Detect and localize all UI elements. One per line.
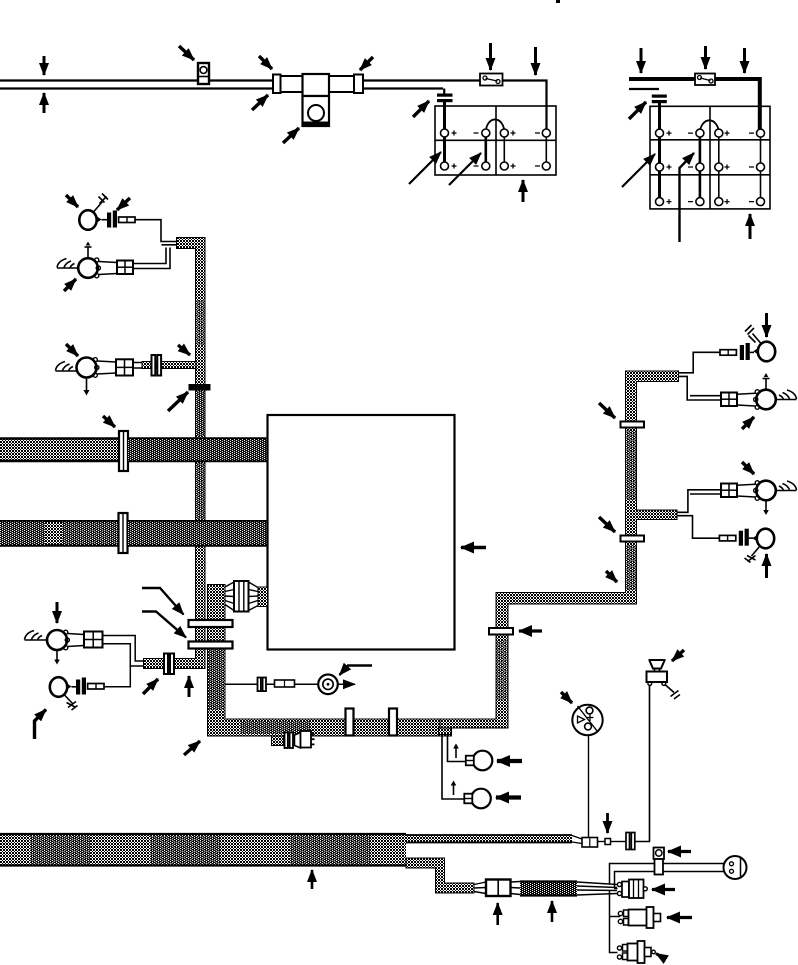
arrow down at battery feed wire bbox=[534, 47, 537, 75]
arrow thick at lamp L6 bbox=[497, 759, 522, 763]
arrow at T-junction left nut bbox=[259, 56, 272, 69]
battery terminal clamp box2 bbox=[652, 95, 667, 202]
battery box 2 cell links bbox=[700, 120, 761, 201]
arrow bent at lamp L5 bbox=[35, 710, 47, 740]
battery box 2 terminals bbox=[656, 129, 765, 206]
arrow at connector L1 bbox=[117, 198, 130, 210]
arrow at harness clamp black bbox=[168, 392, 188, 411]
texture patches on bands bbox=[0, 439, 268, 545]
arrow down at lamp L4 bbox=[56, 602, 59, 623]
circuit breaker on battery feed bbox=[480, 74, 503, 86]
harness clamp 2 bbox=[189, 642, 233, 649]
arrow up at box1 bottom bbox=[522, 180, 525, 202]
arrow at lamp L1 bbox=[66, 195, 78, 207]
arrow up at lamp D bbox=[765, 554, 768, 578]
arrow up at cable bottom bbox=[43, 93, 46, 113]
shielded lead L3 bbox=[142, 362, 196, 369]
connector block L4 bbox=[84, 632, 103, 648]
clamp right harness 1 bbox=[621, 422, 645, 428]
arrow down box2 left bbox=[640, 48, 643, 73]
wires to dome lamps bbox=[442, 735, 466, 800]
wire alarm out with arrowhead bbox=[338, 683, 355, 685]
arrow up at stub junction bbox=[188, 676, 191, 697]
wire switch lead connector bbox=[572, 686, 650, 850]
connector on band B2 bbox=[119, 513, 128, 553]
arrow long at box2 cell link 1 bbox=[622, 154, 655, 187]
wire horn down bbox=[649, 686, 651, 842]
texture patches on hull band bbox=[30, 836, 370, 864]
arrow at lamp C bbox=[742, 462, 754, 474]
tick mark top edge bbox=[556, 0, 560, 3]
sending unit cylinder bbox=[618, 907, 660, 928]
harness right run bbox=[440, 371, 679, 728]
wire top cable left double line bbox=[0, 81, 273, 89]
connector at lamp L5 bbox=[72, 678, 105, 695]
composite lamp L2 bbox=[57, 242, 117, 278]
arrow at terminal clamp box1 bbox=[413, 101, 429, 117]
clamp on trunk horizontal 2 bbox=[389, 709, 397, 736]
harness trunk L-run bbox=[208, 585, 452, 737]
arrow at horn bbox=[672, 650, 684, 661]
arrow bent at backup alarm bbox=[340, 666, 373, 676]
battery box 2 bbox=[650, 106, 770, 209]
taper from connector to rear band bbox=[511, 882, 521, 895]
dome lamp L6 bbox=[453, 744, 492, 771]
stop light switch bbox=[572, 705, 602, 735]
arrow at right clamp 1 bbox=[599, 403, 615, 418]
arrow down at cable top bbox=[43, 56, 46, 75]
arrow down at circuit breaker bbox=[489, 43, 492, 70]
cable clamp C1 bbox=[198, 63, 209, 84]
composite lamp L3 bbox=[56, 358, 117, 396]
battery box 1 bbox=[435, 106, 556, 175]
clamp mid harness bbox=[489, 628, 513, 635]
wire bundle taper bbox=[577, 882, 617, 895]
composite lamp C bbox=[737, 481, 797, 515]
wires L3 to shielded lead bbox=[133, 363, 142, 369]
slave receptacle bbox=[724, 856, 747, 879]
connector block C bbox=[721, 484, 737, 498]
blackout marker lamp L1 bbox=[79, 194, 108, 230]
arrow at lamp B bbox=[742, 417, 754, 429]
harness clamp 1 bbox=[189, 620, 233, 627]
connector on lead L3 bbox=[152, 355, 162, 376]
clamp on trunk horizontal 1 bbox=[346, 709, 354, 736]
arrow at lead junction bbox=[178, 345, 190, 355]
clamp black on harness bbox=[189, 384, 211, 391]
arrow down at switch lead bbox=[606, 813, 609, 833]
texture patches on right harness bbox=[497, 430, 636, 700]
wires lamp L2 to harness bbox=[133, 248, 170, 269]
inline fuse on alarm wire bbox=[275, 680, 295, 687]
battery box 1 cell links bbox=[486, 119, 547, 166]
arrow down box2 right bbox=[743, 48, 746, 73]
hull band step down bbox=[406, 858, 474, 893]
arrow at right clamp 2 bbox=[599, 517, 615, 532]
arrow down at lamp A bbox=[765, 313, 768, 337]
arrow thick at lamp L7 bbox=[496, 795, 521, 799]
pigtail connector below trunk bbox=[272, 731, 315, 748]
arrow at terminal clamp box2 bbox=[629, 102, 646, 119]
wire lamp L5 bbox=[104, 666, 130, 687]
composite lamp L4 bbox=[25, 630, 85, 665]
arrow at right harness corner bbox=[606, 571, 617, 582]
wires bundle to accessories bbox=[610, 864, 725, 953]
arrow at band B1 connector bbox=[103, 416, 115, 427]
blackout lamp D bbox=[745, 529, 775, 563]
arrow up at box2 bottom bbox=[749, 214, 752, 239]
bellows connector to engine bbox=[225, 581, 268, 612]
arrow long at harness clamp 2 bbox=[142, 612, 186, 638]
wire switch to connector bbox=[588, 735, 590, 837]
texture patches on left column bbox=[196, 300, 205, 519]
arrow at rectangle right edge bbox=[461, 546, 486, 550]
backup alarm horn bbox=[318, 675, 338, 695]
taper to trailer connector bbox=[474, 882, 486, 894]
arrow at T-junction right nut bbox=[360, 57, 373, 70]
connector at lamp L1 bbox=[102, 211, 136, 228]
blackout marker lamp A bbox=[745, 325, 775, 361]
arrow down box2 breaker bbox=[704, 46, 707, 69]
connector on alarm wire bbox=[258, 678, 267, 692]
dome lamp L7 bbox=[451, 781, 491, 809]
wire top cable right double line bbox=[363, 81, 547, 134]
blackout stop lamp L5 bbox=[50, 677, 78, 710]
arrow at lower stub connector bbox=[143, 679, 158, 694]
arrow thick at flasher bbox=[652, 888, 675, 891]
flasher unit bbox=[617, 880, 647, 899]
battery box 2 polarity marks bbox=[667, 131, 755, 205]
battery terminal clamp box1 bbox=[437, 94, 453, 167]
texture patches on trunk bbox=[209, 640, 310, 734]
arrow thick at rear clamp bbox=[668, 850, 691, 853]
connector block L2 bbox=[117, 261, 133, 275]
wire to backup alarm bbox=[225, 683, 318, 685]
horn assembly bbox=[647, 660, 681, 699]
engine compartment rectangle bbox=[268, 415, 455, 650]
arrow at clamp C1 bbox=[179, 46, 194, 60]
arrow at harness elbow bbox=[184, 741, 200, 755]
clamp right harness 2 bbox=[621, 536, 645, 542]
wire battery 2 feed bbox=[629, 79, 760, 133]
inline connector lamp A bbox=[720, 343, 754, 360]
composite lamp B bbox=[737, 373, 797, 409]
shielded splice T-junction bbox=[273, 74, 363, 126]
wires to rear lamp pair top bbox=[679, 352, 722, 400]
rear switch cylinder bbox=[617, 941, 655, 963]
harness main column left with stubs bbox=[144, 238, 206, 669]
stub to dome lamps bbox=[439, 728, 452, 735]
trailer connector plug bbox=[486, 880, 511, 897]
arrow up at hull band bbox=[311, 870, 314, 889]
arrow long bent at box2 cell link 2 bbox=[680, 153, 695, 242]
band B2 front harness lower bbox=[0, 520, 268, 547]
circuit breaker battery 2 bbox=[695, 74, 715, 86]
arrow thick at sending unit bbox=[667, 916, 692, 919]
wires to rear lamp pair bottom bbox=[677, 490, 721, 538]
arrow long at box1 cell link 1 bbox=[409, 152, 441, 184]
connector block L3 bbox=[116, 359, 133, 375]
hull band main bbox=[0, 833, 406, 867]
connector on lower stub bbox=[164, 654, 174, 675]
rear band segment bbox=[520, 881, 577, 897]
arrow thick at mid clamp bbox=[519, 629, 542, 632]
arrow at T-junction shell bottom bbox=[283, 128, 299, 143]
arrow at stop light switch bbox=[561, 692, 572, 703]
inline connector lamp D bbox=[719, 529, 753, 546]
wiring clamp rear bbox=[654, 848, 665, 875]
battery box 1 polarity marks bbox=[452, 131, 541, 169]
arrow at lamp L3 bbox=[66, 344, 78, 356]
band B1 front harness bbox=[0, 438, 268, 463]
wire lamp L1 to harness bbox=[135, 220, 177, 245]
arrow up at trailer connector bbox=[496, 903, 499, 925]
arrow at lamp L2 bbox=[64, 279, 76, 291]
arrow at T-junction lower left bbox=[252, 95, 268, 110]
connector on band B1 bbox=[119, 431, 128, 471]
wires lamp L4 to stub bbox=[103, 636, 144, 667]
hull band thin extension bbox=[406, 835, 572, 844]
arrow long at box1 cell link 2 bbox=[449, 153, 481, 185]
connector block B bbox=[721, 393, 737, 407]
arrow long at harness clamp 1 bbox=[142, 588, 184, 615]
arrow at rear switch bbox=[656, 954, 666, 960]
arrow up at rear band bbox=[551, 901, 554, 922]
battery box 1 terminals bbox=[441, 129, 551, 170]
